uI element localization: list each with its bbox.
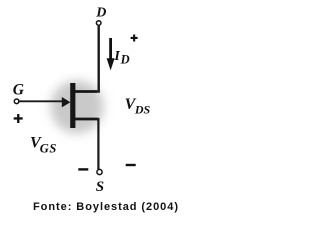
svg-text:D: D	[95, 6, 106, 21]
caption	[33, 201, 179, 213]
plus sign (V_DS polarity, near D)	[131, 35, 138, 42]
transistor Q1 (n-channel JFET)	[62, 83, 98, 128]
minus sign (V_DS polarity, below V_DS)	[126, 164, 136, 166]
halo highlight behind transistor	[51, 81, 104, 134]
voltage label V_GS	[30, 134, 57, 155]
Q1 drain lead	[75, 90, 97, 93]
node S terminal	[97, 169, 102, 174]
wire drain (vertical, to node D)	[97, 26, 99, 93]
Q1 source lead	[75, 118, 97, 121]
minus sign (V_GS polarity, left of S)	[78, 168, 88, 170]
wire gate (horizontal, from node G)	[20, 100, 64, 102]
Q1 gate arrowhead	[62, 97, 71, 107]
plus sign (V_GS polarity, near G)	[14, 114, 23, 123]
node G terminal	[14, 99, 19, 104]
Q1 channel bar	[70, 83, 75, 128]
svg-text:G: G	[13, 81, 25, 98]
voltage label V_DS	[125, 96, 151, 117]
current arrow I_D	[107, 38, 115, 70]
svg-text:D: D	[120, 53, 130, 67]
current label I_D	[113, 49, 129, 66]
svg-text:GS: GS	[40, 141, 57, 155]
svg-text:S: S	[96, 179, 104, 195]
wire source (vertical, to node S)	[97, 118, 99, 169]
svg-text:I: I	[113, 49, 120, 64]
node D terminal	[96, 21, 101, 26]
svg-text:DS: DS	[134, 103, 151, 117]
